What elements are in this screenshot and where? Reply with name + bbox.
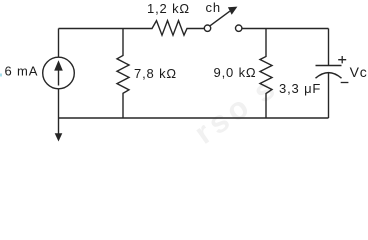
svg-text:7,8 kΩ: 7,8 kΩ — [134, 66, 177, 81]
svg-text:6 mA: 6 mA — [5, 64, 39, 79]
svg-text:ch: ch — [206, 0, 221, 15]
svg-text:3,3 μF: 3,3 μF — [279, 81, 321, 96]
svg-text:9,0 kΩ: 9,0 kΩ — [214, 65, 257, 80]
svg-text:Vc: Vc — [350, 64, 368, 80]
svg-text:1,2 kΩ: 1,2 kΩ — [147, 1, 190, 16]
